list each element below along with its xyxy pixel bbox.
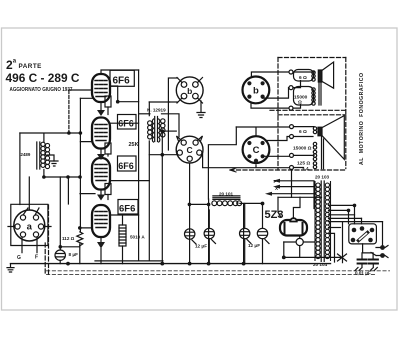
svg-text:b: b [253, 86, 259, 97]
svg-text:6F6: 6F6 [118, 119, 134, 129]
svg-text:2489: 2489 [21, 152, 31, 157]
svg-text:0,01 μF: 0,01 μF [355, 271, 371, 276]
svg-text:15000 Ω: 15000 Ω [293, 146, 312, 152]
svg-text:C: C [253, 145, 260, 156]
svg-text:5010 A: 5010 A [130, 235, 145, 240]
svg-text:6F6: 6F6 [113, 75, 131, 86]
svg-text:+ 4.: + 4. [302, 166, 310, 171]
svg-text:F: F [35, 255, 38, 261]
svg-text:20 104: 20 104 [313, 262, 327, 267]
svg-text:6 Ω: 6 Ω [299, 75, 307, 81]
svg-text:b: b [187, 86, 192, 96]
svg-text:6F6: 6F6 [118, 161, 134, 171]
svg-text:F: F [274, 179, 277, 184]
svg-text:8 μF: 8 μF [69, 252, 79, 257]
svg-text:AGGIORNATO GIUGNO 1937: AGGIORNATO GIUGNO 1937 [10, 87, 73, 93]
svg-text:6 Ω: 6 Ω [299, 129, 307, 135]
svg-text:5Z3: 5Z3 [265, 209, 284, 221]
svg-text:25K: 25K [129, 142, 139, 148]
svg-text:496 C - 289 C: 496 C - 289 C [6, 71, 80, 85]
svg-text:C: C [187, 145, 193, 155]
svg-text:20 103: 20 103 [315, 175, 329, 180]
svg-text:6F6: 6F6 [119, 204, 135, 215]
svg-text:N. 12919: N. 12919 [147, 108, 166, 113]
svg-text:112 Ω: 112 Ω [62, 236, 75, 241]
svg-text:G: G [17, 255, 21, 261]
svg-text:12 μF: 12 μF [195, 244, 207, 249]
svg-text:12 μF: 12 μF [248, 243, 260, 248]
svg-text:a: a [27, 221, 33, 232]
svg-text:AL MOTORINO FONOGRAFICO: AL MOTORINO FONOGRAFICO [359, 72, 365, 165]
svg-text:PARTE: PARTE [19, 63, 42, 70]
svg-text:20 101: 20 101 [219, 192, 233, 197]
svg-text:Ω: Ω [298, 100, 302, 106]
